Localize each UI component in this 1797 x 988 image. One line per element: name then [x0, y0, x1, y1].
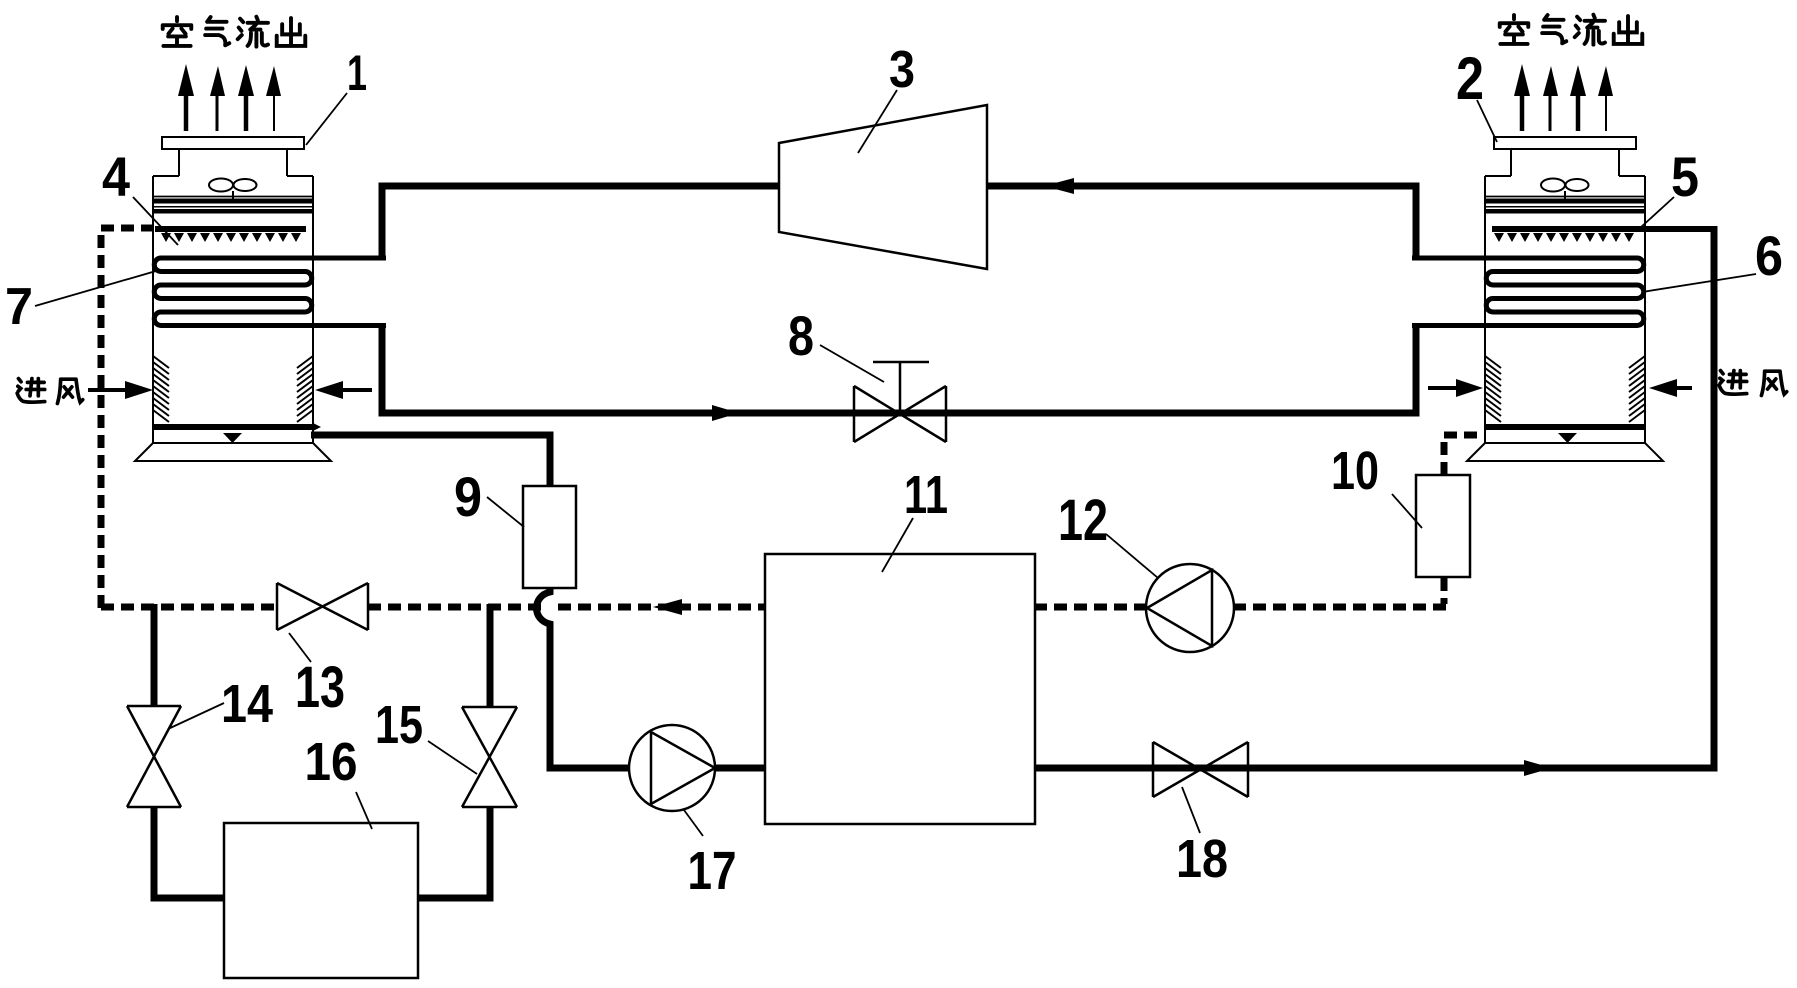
turbine 3	[779, 105, 987, 269]
leader line 14	[168, 703, 224, 729]
tower 1 spray header	[155, 226, 306, 232]
tower 2 water level mark	[1558, 433, 1577, 443]
leader line 2	[1477, 100, 1497, 142]
leader line 12	[1106, 534, 1158, 578]
wire: bottom run into pump 17	[547, 765, 631, 772]
leader line 18	[1182, 787, 1200, 833]
cooling tower 2 (right) shell	[1467, 149, 1663, 461]
svg-text:3: 3	[889, 41, 915, 99]
leader line 17	[684, 810, 703, 836]
arrow on line after valve 18 (flow right)	[1524, 760, 1552, 776]
svg-text:8: 8	[788, 304, 814, 367]
valve 8 body	[854, 386, 946, 442]
valve 8 stem	[873, 362, 929, 414]
leader line 13	[289, 633, 311, 662]
arrow on dashed line (flow left)	[653, 599, 682, 615]
wire: left coil exit down	[379, 324, 386, 413]
wire: branch to valve 15	[487, 604, 494, 707]
tower 1 air inlet arrow left	[88, 388, 128, 392]
svg-text:7: 7	[5, 278, 33, 336]
tower 2 fan	[1541, 179, 1589, 200]
tank 16	[224, 823, 418, 978]
wire: right end up to right coil bottom entry	[1413, 324, 1420, 413]
leader line 15	[428, 741, 477, 774]
tower 1 louvers	[153, 356, 313, 422]
svg-text:4: 4	[102, 145, 130, 208]
wire: turbine discharge to left coil entry	[382, 186, 780, 256]
wire: valve 14 to tank 16	[154, 806, 226, 898]
arrow on valve-8 line (flow right)	[712, 405, 739, 421]
svg-text:16: 16	[305, 732, 358, 792]
svg-text:1: 1	[347, 45, 367, 101]
svg-text:12: 12	[1058, 488, 1108, 553]
dashed wire: heat exchanger 11 to pump 12	[1034, 604, 1147, 611]
leader line 8	[820, 345, 884, 382]
svg-text:11: 11	[904, 465, 948, 525]
tower 1 air inlet arrow right	[340, 388, 372, 392]
svg-text:6: 6	[1755, 224, 1783, 287]
heat exchanger 11	[765, 554, 1035, 824]
svg-text:9: 9	[454, 465, 482, 528]
leader line 16	[356, 792, 372, 829]
valve 18	[1153, 742, 1248, 797]
leader line 10	[1392, 494, 1422, 528]
wire: pump 17 to heat exchanger 11	[714, 765, 766, 772]
wire: right coil top exit to turbine inlet	[988, 186, 1416, 256]
leader line 3	[858, 90, 897, 153]
tank 10	[1416, 475, 1470, 577]
valve 14	[127, 706, 181, 807]
wire: heat exchanger 11 to right riser through valve 18	[1034, 226, 1714, 768]
tower 2 drift eliminator bars	[1485, 196, 1645, 198]
dashed wire: spray return line left of valve 13	[101, 604, 277, 611]
tower 1 fan	[209, 179, 257, 200]
tower 2 basin water line	[1485, 424, 1645, 430]
tower 2 spray header fed from riser	[1492, 226, 1714, 232]
svg-text:15: 15	[375, 695, 423, 755]
separator 9	[523, 486, 576, 588]
tower 2 fan cowl plate	[1494, 137, 1636, 149]
wire: main line through valve 8	[379, 410, 1420, 417]
leader line 9	[487, 497, 524, 527]
leader line 6	[1642, 274, 1756, 292]
wire: valve 15 to tank 16	[416, 806, 490, 898]
coil 7 serpentine	[154, 258, 386, 326]
wire: branch to valve 14	[151, 604, 158, 707]
dashed wire: hop to heat exchanger 11	[558, 604, 766, 611]
tower 1 water level mark	[223, 433, 242, 443]
leader line 11	[882, 518, 913, 572]
label 进风 left	[17, 379, 83, 404]
wire: below 9 with hop over dashed line	[537, 588, 551, 765]
label 进风 right	[1719, 371, 1787, 396]
wire: left tower basin outlet to separator 9	[311, 435, 550, 487]
leader line 5	[1640, 197, 1674, 228]
dashed wire: tank 10 to right tower basin	[1444, 435, 1486, 475]
coil 6 serpentine	[1412, 258, 1644, 326]
label 空气流出 right	[1500, 15, 1643, 45]
tower 1 air outlet arrows	[178, 64, 281, 131]
label 空气流出 left	[163, 17, 306, 47]
svg-text:2: 2	[1456, 45, 1484, 112]
svg-text:14: 14	[221, 674, 273, 734]
tower 2 air inlet arrow right	[1670, 386, 1692, 390]
valve 15	[462, 707, 517, 807]
tower 2 air inlet arrow left	[1428, 386, 1460, 390]
svg-text:17: 17	[688, 841, 737, 901]
dashed wire: left spray riser	[101, 228, 154, 608]
tower 1 spray nozzles	[161, 233, 301, 242]
leader line 4	[133, 197, 178, 245]
tower 2 spray nozzles	[1494, 233, 1634, 242]
leader line 1	[306, 93, 347, 145]
dashed wire: pump 12 to tank 10	[1233, 604, 1448, 611]
dashed wire: valve 13 to hop	[368, 604, 541, 611]
svg-text:13: 13	[295, 655, 345, 720]
cooling tower 1 (left) shell	[135, 149, 331, 461]
tower 1 basin water line	[153, 424, 313, 430]
tower 2 louvers	[1485, 356, 1645, 422]
tower 2 air outlet arrows	[1514, 64, 1613, 131]
leader line 7	[35, 271, 156, 306]
valve 13	[277, 583, 368, 630]
svg-text:18: 18	[1176, 829, 1228, 889]
pump 12	[1146, 564, 1234, 652]
tower 1 fan cowl plate	[162, 137, 304, 149]
arrow on turbine inlet line (flow left)	[1044, 178, 1074, 194]
svg-text:5: 5	[1671, 145, 1699, 208]
tower 1 drift eliminator bars	[153, 196, 313, 198]
svg-text:10: 10	[1331, 441, 1379, 501]
pump 17	[629, 725, 715, 811]
